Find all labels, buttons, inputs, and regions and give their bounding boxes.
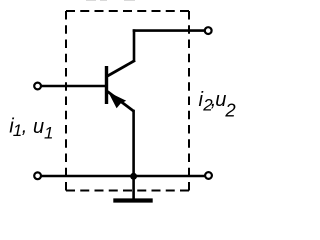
junction dot (emitter / bottom rail) (130, 173, 137, 180)
wire: collector horizontal (port 2 top) (133, 29, 204, 32)
terminal: port 1 lower (left) (34, 172, 41, 179)
svg-text:1: 1 (44, 123, 53, 142)
cropped text remnants at top edge (86, 0, 96, 1)
label i1,u1 (port 1) (9, 116, 53, 143)
terminal: port 2 lower (right) (205, 172, 212, 179)
wire: emitter diagonal (108, 92, 134, 112)
label i2,u2 (port 2) (199, 89, 237, 121)
transistor Q1 emitter arrow (PNP, points toward base) (108, 92, 126, 108)
two-port boundary dashed box: bottom edge (66, 190, 189, 192)
ground bar (113, 198, 152, 202)
two-port boundary dashed box: left edge (65, 11, 67, 191)
transistor Q1 base bar (105, 66, 108, 104)
terminal: port 1 upper (left) (34, 83, 41, 90)
wire: base lead (port 1 top) (42, 85, 107, 88)
svg-text:u: u (33, 116, 44, 138)
svg-text:2: 2 (224, 100, 236, 121)
two-port boundary dashed box: right edge (188, 11, 190, 191)
wire: collector vertical (133, 29, 136, 62)
wire: bottom common rail (42, 175, 205, 178)
two-port boundary dashed box: top edge (66, 10, 189, 12)
wire: collector diagonal (108, 60, 136, 76)
svg-text:,: , (22, 116, 28, 138)
wire: emitter vertical (132, 110, 135, 201)
terminal: port 2 upper (right) (205, 27, 212, 34)
